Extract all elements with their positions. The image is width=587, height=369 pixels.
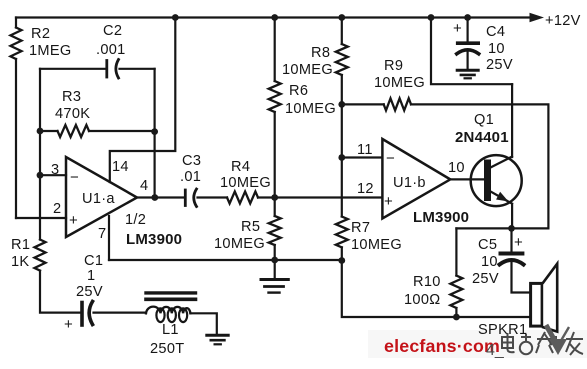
svg-text:1: 1 (87, 268, 95, 284)
svg-text:+: + (64, 316, 73, 333)
node pin 11 (338, 154, 345, 161)
resistor R8 (336, 44, 348, 75)
svg-text:Q1: Q1 (474, 112, 494, 128)
wire R8/R9 node down through pin11 node to R7 (341, 104, 343, 216)
+12V arrow (530, 13, 545, 22)
svg-text:10MEG: 10MEG (374, 75, 425, 91)
resistor R3 (58, 125, 90, 137)
svg-text:2: 2 (53, 201, 61, 217)
transistor Q1 emitter (491, 192, 513, 229)
wire +12V jog to collector (431, 18, 512, 85)
svg-text:U1·a: U1·a (82, 191, 115, 207)
svg-text:R5: R5 (241, 219, 260, 235)
capacitor C1 (80, 303, 84, 326)
wire R10 bottom (455, 308, 457, 317)
svg-text:470K: 470K (55, 106, 90, 122)
node R3 right / feedback (151, 128, 158, 135)
watermark arrow (546, 325, 555, 341)
wire left rail from top rail down to pin2 run (15, 18, 17, 219)
transistor Q1 emitter arrowhead (496, 192, 508, 202)
ground (C4) (457, 69, 478, 72)
svg-text:R10: R10 (413, 274, 441, 290)
svg-text:C3: C3 (182, 153, 201, 169)
svg-text:250T: 250T (150, 341, 184, 357)
ground (center) (274, 260, 276, 278)
svg-text:25V: 25V (486, 57, 513, 73)
resistor R7 (336, 217, 348, 248)
svg-text:+12V: +12V (545, 13, 581, 29)
svg-text:−: − (386, 150, 395, 167)
op-amp U1-b (382, 139, 450, 219)
svg-text:elecfans·com: elecfans·com (384, 336, 500, 356)
svg-text:C4: C4 (486, 24, 505, 40)
wire R9 row left (342, 103, 384, 105)
transistor Q1 circle (471, 155, 522, 206)
resistor R1 (35, 240, 46, 271)
wire R7 bottom to ground rail corner and bottom-right rail (342, 247, 530, 317)
svg-text:R7: R7 (351, 220, 370, 236)
svg-text:10: 10 (488, 41, 505, 57)
svg-text:1/2: 1/2 (125, 212, 146, 228)
node top rail / R8 (338, 14, 345, 21)
svg-text:R9: R9 (384, 58, 403, 74)
watermark background (368, 330, 587, 358)
wire R8 branch vertical (341, 18, 343, 105)
wire L1 to ground (190, 313, 216, 333)
resistor R9 (384, 98, 411, 110)
svg-text:+: + (453, 20, 462, 37)
node R7/ground rail (338, 257, 345, 264)
wire R4 to U1-b pin 12 (258, 196, 382, 198)
svg-text:10: 10 (448, 160, 465, 176)
transistor Q1 base bar (484, 163, 491, 198)
wire pin 11 (342, 156, 383, 158)
svg-text:L1: L1 (162, 322, 179, 338)
svg-text:LM3900: LM3900 (126, 231, 182, 248)
svg-text:R4: R4 (231, 159, 250, 175)
svg-text:R1: R1 (11, 237, 30, 253)
svg-text:C1: C1 (84, 253, 103, 269)
wire emitter node row (456, 227, 548, 229)
svg-text:14: 14 (112, 159, 129, 175)
svg-text:25V: 25V (76, 284, 103, 300)
resistor R5 (269, 216, 281, 245)
wire R3 row (40, 130, 155, 132)
speaker SPKR1 (531, 283, 543, 326)
op-amp U1-a (66, 157, 137, 237)
wire top +12V rail (16, 16, 530, 18)
resistor R2 (11, 28, 22, 60)
node R8/R9 (338, 101, 345, 108)
capacitor C2 (105, 61, 108, 78)
inductor L1 core bars (146, 291, 196, 294)
svg-text:10: 10 (481, 254, 498, 270)
resistor R10 (450, 276, 462, 308)
wire pin3 (40, 174, 66, 176)
svg-text:LM3900: LM3900 (413, 209, 469, 226)
node R3 left (37, 128, 44, 135)
svg-text:7: 7 (98, 226, 106, 242)
resistor R6 (269, 81, 281, 112)
wire R10 top (455, 228, 457, 275)
node pin 3 (37, 172, 44, 179)
svg-text:+: + (384, 193, 393, 210)
wire pin 7 down from U1-a (108, 216, 110, 260)
node top rail / collector jog (428, 14, 435, 21)
svg-text:R2: R2 (31, 26, 50, 42)
wire U1-a output row to C3 (137, 196, 183, 198)
node top rail / R6 (271, 14, 278, 21)
svg-text:100Ω: 100Ω (404, 292, 440, 308)
wire C2 branch left vertical x=40 (39, 69, 41, 240)
node R10 bottom (453, 314, 460, 321)
svg-text:4: 4 (140, 178, 148, 194)
wire C3 to R4 (198, 196, 228, 198)
svg-text:C5: C5 (478, 237, 497, 253)
node top rail / pin14 supply (172, 14, 179, 21)
watermark chinese characters (486, 332, 583, 359)
node U1-a output (151, 194, 158, 201)
wire C5 bottom to speaker (512, 262, 530, 293)
wire C1 to L1 (94, 312, 147, 314)
svg-text:+: + (514, 234, 523, 251)
capacitor C3 (184, 190, 187, 206)
capacitor C4 (467, 18, 469, 42)
wire pin2 run from left rail to U1-a (16, 217, 66, 219)
svg-text:10MEG: 10MEG (285, 101, 336, 117)
svg-text:2N4401: 2N4401 (455, 129, 509, 146)
capacitor C5 (510, 228, 512, 250)
svg-text:R6: R6 (289, 83, 308, 99)
svg-text:−: − (70, 169, 79, 186)
svg-text:+: + (69, 212, 78, 229)
ground (L1) (207, 334, 228, 337)
svg-text:12: 12 (357, 181, 374, 197)
svg-text:1K: 1K (11, 254, 29, 270)
svg-text:U1·b: U1·b (393, 175, 426, 191)
svg-text:.01: .01 (180, 169, 201, 185)
wire R9 to right feedback drop (411, 104, 548, 228)
resistor R4 (227, 192, 258, 204)
svg-text:.001: .001 (96, 42, 126, 58)
wire U1-b output pin 10 to Q1 base (450, 178, 484, 180)
svg-text:10MEG: 10MEG (351, 237, 402, 253)
wire feedback vertical x=154.6 from C2 row to output node (154, 69, 156, 198)
svg-text:10MEG: 10MEG (282, 62, 333, 78)
node R5/ground rail (271, 257, 278, 264)
svg-text:R8: R8 (311, 45, 330, 61)
wire R1 bottom to C1 (40, 271, 80, 313)
wire R6 branch vertical (274, 18, 276, 198)
node top rail / C4 (464, 14, 471, 21)
wire R5 connections (274, 198, 276, 261)
inductor L1 (146, 307, 190, 314)
svg-text:10MEG: 10MEG (214, 236, 265, 252)
wire C2 row (40, 68, 155, 70)
transistor Q1 collector (491, 84, 513, 167)
wire pin 14 to supply rail (110, 18, 176, 183)
node emitter/C5 (508, 225, 515, 232)
svg-text:25V: 25V (472, 271, 499, 287)
svg-text:R3: R3 (62, 89, 81, 105)
svg-text:3: 3 (51, 162, 59, 178)
svg-text:10MEG: 10MEG (220, 175, 271, 191)
svg-text:C2: C2 (103, 23, 122, 39)
svg-text:11: 11 (357, 142, 373, 158)
node R4/R5/R6/pin12 (271, 194, 278, 201)
wire center ground rail (109, 259, 342, 261)
svg-text:1MEG: 1MEG (29, 43, 72, 59)
